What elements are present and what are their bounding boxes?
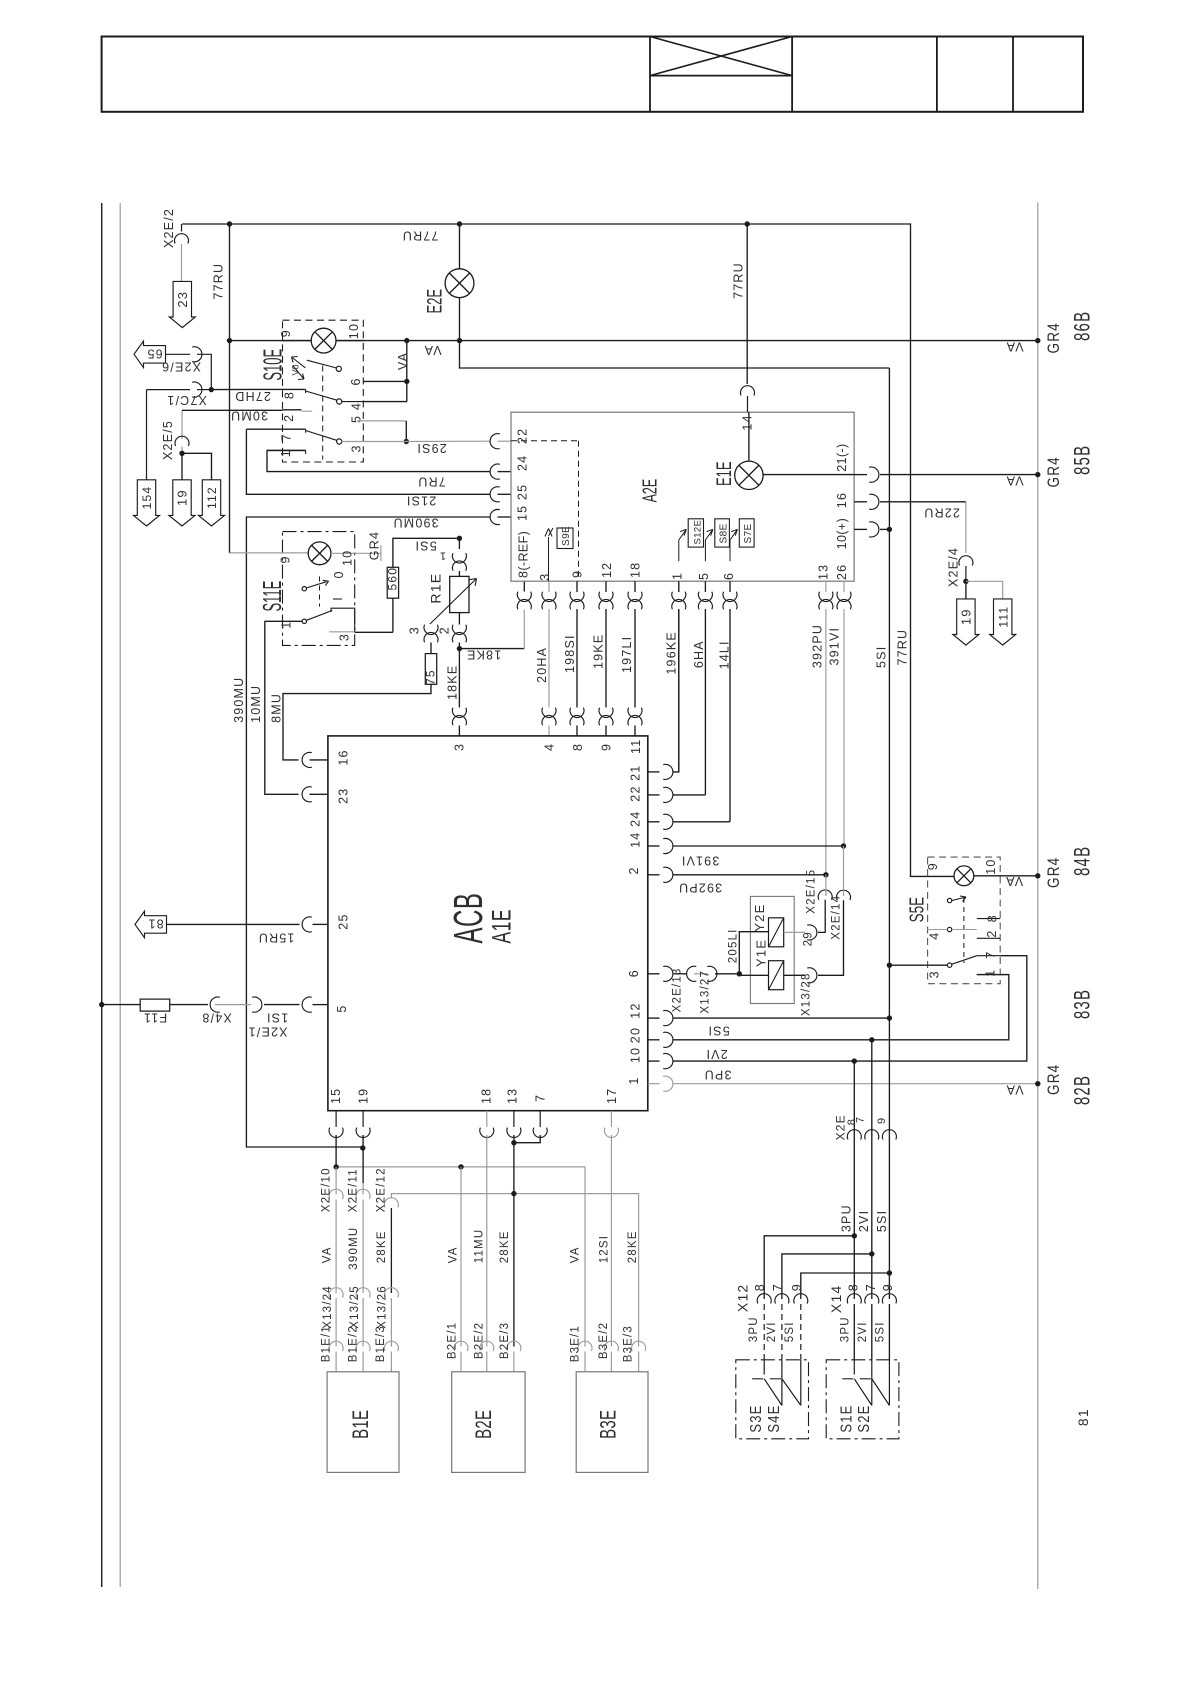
wire 28KE row: [391, 1194, 638, 1347]
wire 20HA: [548, 581, 550, 592]
svg-text:29: 29: [803, 931, 815, 946]
svg-text:X2E/11: X2E/11: [348, 1168, 360, 1212]
arrow 112: [182, 453, 212, 480]
svg-text:9: 9: [571, 570, 585, 578]
wire S11E pin9 feed: [230, 552, 309, 554]
svg-text:11MU: 11MU: [474, 1229, 486, 1264]
svg-text:X2E/6: X2E/6: [161, 360, 201, 374]
svg-text:83B: 83B: [1071, 989, 1096, 1019]
left supply rail: [101, 203, 103, 1587]
connector X13/27: [674, 973, 687, 975]
svg-text:S4E: S4E: [766, 1404, 783, 1432]
svg-text:7: 7: [771, 1283, 785, 1291]
svg-text:1: 1: [627, 1076, 641, 1084]
svg-text:7: 7: [534, 1094, 548, 1102]
svg-text:75: 75: [424, 669, 438, 685]
svg-text:F11: F11: [143, 1010, 167, 1024]
svg-text:22: 22: [629, 785, 643, 801]
wire E2E to 5SI corner: [460, 341, 890, 368]
svg-text:9: 9: [926, 862, 940, 870]
wire 196KE to pin21: [648, 771, 660, 773]
node 5SI-R1E: [457, 536, 462, 541]
wire 7RU: [267, 450, 490, 471]
wire 18KE to A1E pin3: [458, 649, 460, 708]
svg-text:19: 19: [175, 489, 190, 506]
svg-text:2VI: 2VI: [705, 1047, 727, 1061]
svg-text:8MU: 8MU: [270, 693, 284, 723]
rheostat R1E: [450, 576, 469, 612]
svg-text:S5E: S5E: [905, 897, 929, 922]
box B3E: [576, 1372, 648, 1473]
S11E contact 1-3: [265, 620, 302, 622]
node 2VI: [869, 1037, 874, 1042]
svg-text:82B: 82B: [1071, 1075, 1096, 1105]
S5E pin8 line: [977, 918, 1000, 920]
arrow 19 right: [965, 581, 967, 599]
node VA-GR4-85B: [1035, 472, 1040, 477]
node 5SI-pin12: [887, 1015, 892, 1020]
svg-text:205LI: 205LI: [728, 928, 740, 963]
svg-text:B1E/1: B1E/1: [321, 1325, 333, 1362]
wire 391VI to pin14: [648, 845, 660, 847]
svg-text:197LI: 197LI: [620, 636, 634, 673]
svg-text:390MU: 390MU: [392, 516, 438, 530]
svg-text:S1E: S1E: [839, 1404, 856, 1432]
wire 390MU: [246, 517, 427, 1147]
svg-text:S7E: S7E: [743, 523, 754, 543]
wire 196KE: [678, 581, 680, 592]
node VA-GR4-84B: [1035, 873, 1040, 878]
svg-text:8: 8: [847, 1283, 861, 1291]
svg-text:10(+): 10(+): [835, 518, 849, 550]
svg-text:9: 9: [279, 555, 293, 563]
svg-text:6: 6: [722, 572, 736, 580]
wire A2E pin14 feed: [746, 224, 748, 384]
svg-text:X12: X12: [735, 1284, 751, 1313]
lamp E1E: [748, 412, 750, 461]
wire B3E/3 col 28KE: [632, 1341, 646, 1351]
svg-text:X4/8: X4/8: [201, 1010, 232, 1024]
X12 branch 2VI: [869, 1251, 874, 1256]
sensor arrow S7E: [739, 519, 754, 547]
node X2E4: [963, 579, 968, 584]
switch S5E box: [928, 857, 1001, 984]
svg-text:B2E/2: B2E/2: [474, 1322, 486, 1359]
wire 6HA: [704, 581, 706, 592]
svg-text:5: 5: [697, 572, 711, 580]
svg-text:8: 8: [986, 914, 1000, 922]
svg-text:B2E/1: B2E/1: [447, 1322, 459, 1359]
S5E pin1 line: [977, 974, 1009, 976]
wire 29SI: [342, 441, 407, 443]
wire B3E/1 col VA: [584, 1167, 586, 1347]
svg-text:17: 17: [605, 1088, 619, 1104]
wire 5SI vertical lower: [888, 368, 890, 1299]
svg-text:S11E: S11E: [258, 581, 287, 612]
connector X2E 7 on 2VI: [865, 1130, 879, 1140]
switch S1E/S2E box: [826, 1360, 899, 1439]
node 3PU: [852, 1058, 857, 1063]
node 77RU-E1E: [745, 221, 750, 226]
svg-text:Y2E: Y2E: [752, 904, 767, 932]
svg-text:19: 19: [357, 1088, 371, 1104]
node 18KE: [457, 646, 462, 651]
svg-text:84B: 84B: [1071, 846, 1096, 876]
wire VA to pin6-pin4: [406, 341, 408, 402]
arrow 23: [169, 281, 195, 327]
svg-text:5 4: 5 4: [349, 402, 363, 423]
svg-text:X13/27: X13/27: [700, 970, 712, 1014]
svg-text:391VI: 391VI: [681, 854, 720, 868]
connector X2E/5: [175, 436, 189, 446]
left border line: [119, 203, 121, 1587]
svg-text:5SI: 5SI: [875, 1210, 889, 1232]
svg-text:X2E/2: X2E/2: [162, 208, 176, 248]
svg-text:28KE: 28KE: [499, 1230, 511, 1263]
svg-text:X2E/12: X2E/12: [376, 1167, 388, 1212]
node VA-B2: [458, 1164, 463, 1169]
wire pin1 row VA 82B: [648, 1083, 660, 1085]
svg-text:VA: VA: [396, 352, 410, 370]
S10E selector centerline: [322, 366, 324, 460]
svg-text:9: 9: [279, 329, 293, 337]
node VA-S10E: [404, 338, 409, 343]
svg-text:13: 13: [506, 1088, 520, 1104]
wire 205LI: [737, 971, 742, 976]
net stub GR4 at S11E: [380, 545, 382, 561]
node 10+ 5SI: [887, 527, 892, 532]
wire 2VI vertical: [871, 1040, 873, 1299]
wire 8MU: [283, 684, 431, 760]
svg-text:7: 7: [864, 1283, 878, 1291]
svg-text:6HA: 6HA: [692, 640, 706, 668]
svg-text:Y1E: Y1E: [754, 939, 769, 967]
svg-text:0: 0: [332, 570, 346, 578]
svg-text:111: 111: [996, 606, 1010, 628]
svg-text:560: 560: [386, 567, 400, 591]
svg-text:3: 3: [453, 743, 467, 751]
svg-text:15 25: 15 25: [516, 484, 530, 521]
arrow 65: [134, 341, 166, 368]
svg-text:18KE: 18KE: [466, 648, 501, 662]
arrow 154: [134, 480, 160, 526]
svg-text:3: 3: [928, 970, 942, 978]
svg-text:3PU: 3PU: [748, 1316, 760, 1342]
svg-text:VA: VA: [1005, 340, 1023, 354]
connector R1E pin1: [458, 538, 460, 549]
wire 77RU bus: [182, 224, 928, 876]
title block crossed box: [650, 75, 792, 77]
S5E contact 3: [889, 964, 947, 966]
wire 6HA to pin22: [648, 794, 660, 796]
fuse F11: [99, 1002, 104, 1007]
wire VA 85B row: [854, 474, 867, 476]
svg-text:29SI: 29SI: [416, 441, 447, 455]
svg-text:3PU: 3PU: [704, 1067, 732, 1081]
svg-text:5: 5: [335, 1004, 349, 1012]
S10E pin1 line: [267, 449, 306, 451]
S10E wiper arm: [307, 360, 336, 368]
svg-text:16: 16: [337, 749, 351, 765]
svg-text:5SI: 5SI: [875, 1321, 887, 1342]
S10E contact 7-3: [246, 428, 305, 430]
svg-text:21: 21: [629, 765, 643, 781]
svg-text:X2E/15: X2E/15: [806, 869, 818, 914]
wire VA bus: [230, 340, 1038, 342]
wire 3PU vertical: [853, 1061, 855, 1299]
wire 392PU to pin2: [648, 874, 660, 876]
svg-text:24: 24: [516, 455, 530, 471]
wire B2E/1 col VA: [460, 1167, 462, 1347]
svg-text:22: 22: [516, 428, 530, 444]
svg-text:19: 19: [959, 608, 974, 625]
svg-text:18KE: 18KE: [445, 665, 459, 700]
svg-text:9: 9: [600, 743, 614, 751]
wire X7C/1 row: [147, 389, 191, 391]
svg-text:5SI: 5SI: [875, 646, 889, 668]
switch S10E box: [283, 320, 364, 462]
svg-text:S9E: S9E: [561, 526, 572, 546]
svg-text:30MU: 30MU: [230, 409, 268, 423]
svg-text:VA: VA: [1005, 874, 1023, 888]
svg-text:65: 65: [146, 347, 162, 361]
wire pin12 row 5SI: [648, 1017, 660, 1019]
svg-text:5SI: 5SI: [784, 1321, 796, 1342]
svg-text:B1E/3: B1E/3: [375, 1325, 387, 1362]
svg-text:112: 112: [205, 486, 219, 509]
wire 14LI to pin24: [648, 821, 660, 823]
node VA-GR4-82B: [1035, 1081, 1040, 1086]
svg-text:392PU: 392PU: [678, 881, 722, 895]
svg-text:154: 154: [140, 486, 154, 510]
S10E pin5 line: [357, 420, 406, 422]
svg-text:27HD: 27HD: [234, 389, 271, 403]
S10E pin6 line: [363, 380, 407, 382]
svg-text:1: 1: [439, 550, 446, 562]
wire pin19 col 390MU: [356, 1128, 370, 1138]
svg-text:196KE: 196KE: [665, 631, 679, 675]
svg-text:28KE: 28KE: [376, 1230, 388, 1263]
wire B1E/3 col 28KE: [384, 1198, 398, 1208]
lamp E2E: [459, 224, 461, 269]
svg-text:X2E/14: X2E/14: [831, 895, 843, 940]
S5E pin2 line: [977, 937, 1000, 939]
svg-text:3: 3: [408, 626, 422, 634]
S10E pin2 stub: [283, 409, 302, 411]
node VA-left: [227, 338, 232, 343]
svg-text:28KE: 28KE: [627, 1230, 639, 1263]
svg-text:10: 10: [629, 1047, 643, 1063]
svg-text:1SI: 1SI: [266, 1010, 288, 1024]
svg-text:3PU: 3PU: [840, 1316, 852, 1342]
svg-text:85B: 85B: [1071, 445, 1096, 475]
node S10E pin6: [404, 379, 409, 384]
svg-text:B1E/2: B1E/2: [348, 1325, 360, 1362]
svg-text:2VI: 2VI: [857, 1210, 871, 1232]
svg-text:390MU: 390MU: [232, 677, 246, 723]
wire Y1E to X13/28 X2E/14: [784, 974, 805, 976]
node 28KE: [511, 1191, 516, 1196]
svg-text:4: 4: [543, 743, 557, 751]
svg-text:B3E/3: B3E/3: [623, 1325, 635, 1362]
svg-text:86B: 86B: [1071, 311, 1096, 341]
wire 30MU row: [181, 411, 183, 440]
svg-text:3: 3: [349, 444, 363, 452]
svg-text:B3E/1: B3E/1: [570, 1325, 582, 1362]
wire 18KE branch to A2E 8REF: [459, 648, 524, 650]
node VA-GR4-86B: [1035, 338, 1040, 343]
X12 branch 3PU: [852, 1233, 857, 1238]
svg-text:22RU: 22RU: [923, 506, 960, 520]
svg-text:77RU: 77RU: [732, 262, 746, 299]
svg-text:3: 3: [538, 573, 552, 581]
svg-text:3PU: 3PU: [840, 1204, 854, 1232]
svg-text:X2E/4: X2E/4: [947, 547, 961, 587]
svg-text:B2E/3: B2E/3: [499, 1322, 511, 1359]
svg-text:X13/28: X13/28: [801, 972, 813, 1016]
lamp S10E pin9-10: [283, 340, 312, 342]
svg-text:12: 12: [629, 1002, 643, 1018]
svg-text:2VI: 2VI: [766, 1321, 778, 1342]
coil Y1E: [739, 974, 768, 976]
wire 1SI: [170, 1004, 208, 1006]
svg-text:18: 18: [480, 1088, 494, 1104]
wire pin7 jog: [533, 1128, 547, 1138]
svg-text:12: 12: [600, 562, 614, 578]
svg-text:8: 8: [753, 1283, 767, 1291]
wire pin10 row 3PU: [648, 1060, 660, 1062]
svg-text:14LI: 14LI: [718, 640, 732, 669]
S5E selector: [947, 898, 951, 902]
lamp S5E: [928, 875, 954, 877]
svg-text:GR4: GR4: [1045, 456, 1064, 487]
svg-text:X2E/5: X2E/5: [161, 420, 175, 460]
svg-text:X14: X14: [828, 1285, 844, 1314]
wire 154 drop: [146, 390, 148, 480]
svg-text:8: 8: [283, 391, 297, 399]
connector X2E/2: [181, 224, 183, 232]
svg-text:10: 10: [341, 550, 355, 566]
S10E contact 8-4: [283, 388, 306, 390]
svg-text:GR4: GR4: [1045, 1064, 1064, 1095]
X12 branch 5SI: [887, 1270, 892, 1275]
svg-text:VA: VA: [1005, 474, 1023, 488]
svg-text:5SI: 5SI: [707, 1024, 729, 1038]
svg-text:81: 81: [147, 917, 163, 931]
svg-text:23: 23: [175, 291, 190, 308]
node X2E5: [179, 451, 184, 456]
svg-text:6: 6: [627, 969, 641, 977]
svg-text:3: 3: [338, 633, 352, 641]
svg-text:7: 7: [984, 951, 998, 959]
sensor arrow S12E: [688, 519, 703, 547]
title block frame: [102, 37, 1083, 112]
svg-text:1: 1: [671, 572, 685, 580]
wire 197LI: [634, 581, 636, 592]
wire 198SI: [576, 581, 578, 592]
svg-text:15RU: 15RU: [258, 931, 295, 945]
connector R1E pin2: [458, 613, 460, 625]
svg-text:B2E: B2E: [471, 1410, 495, 1439]
svg-text:11: 11: [629, 739, 643, 754]
svg-text:24: 24: [629, 811, 643, 827]
svg-text:6: 6: [349, 377, 363, 385]
svg-text:198SI: 198SI: [563, 634, 577, 673]
svg-text:16: 16: [835, 492, 849, 508]
svg-text:14: 14: [741, 414, 755, 430]
svg-text:9: 9: [881, 1283, 895, 1291]
coil Y2E: [769, 918, 784, 947]
svg-text:20HA: 20HA: [535, 647, 549, 683]
arrow 111: [966, 581, 1003, 599]
svg-text:X2E/1: X2E/1: [247, 1025, 287, 1039]
svg-text:8: 8: [571, 743, 585, 751]
node 391VI: [841, 843, 846, 848]
svg-text:391VI: 391VI: [828, 627, 842, 666]
svg-text:21SI: 21SI: [406, 494, 437, 508]
svg-text:B3E: B3E: [596, 1410, 620, 1439]
svg-text:X7C/1: X7C/1: [166, 393, 207, 407]
wire pin20 row 2VI: [648, 1039, 660, 1041]
wire pin6 row X2E/13: [648, 973, 660, 975]
wire X2E2 riser: [229, 224, 231, 553]
svg-text:81: 81: [1075, 1408, 1091, 1426]
wire 19KE: [605, 581, 607, 592]
node 5SI-S5E3: [887, 963, 892, 968]
node X7C1: [209, 387, 214, 392]
connector X2E/6: [166, 353, 191, 355]
connector R1E pin3: [424, 625, 438, 635]
svg-text:7: 7: [855, 1116, 867, 1123]
svg-text:2: 2: [985, 929, 999, 937]
node 392PU: [823, 872, 828, 877]
S10E selector arrows: [292, 357, 306, 369]
wire pin17 col 12SI: [604, 1128, 618, 1138]
svg-text:13: 13: [817, 564, 831, 580]
svg-text:GR4: GR4: [1045, 857, 1064, 888]
wire 391VI upper: [843, 581, 845, 592]
svg-text:390MU: 390MU: [348, 1227, 360, 1270]
svg-text:21(-): 21(-): [835, 443, 849, 471]
node VA-E2E: [457, 338, 462, 343]
svg-text:7RU: 7RU: [417, 475, 446, 489]
svg-text:9: 9: [790, 1283, 804, 1291]
svg-text:S2E: S2E: [856, 1404, 873, 1432]
svg-text:392PU: 392PU: [811, 624, 825, 668]
svg-text:B1E: B1E: [348, 1410, 372, 1439]
wire 392PU upper: [825, 581, 827, 592]
svg-text:25: 25: [337, 913, 351, 929]
svg-text:77RU: 77RU: [896, 629, 910, 666]
wire pin13 col 28KE: [507, 1128, 521, 1138]
svg-text:R1E: R1E: [428, 573, 444, 604]
svg-text:10MU: 10MU: [249, 685, 263, 723]
svg-text:S12E: S12E: [693, 520, 704, 545]
svg-text:S8E: S8E: [719, 523, 730, 543]
svg-text:X13/24: X13/24: [322, 1285, 334, 1329]
svg-text:GR4: GR4: [368, 531, 382, 560]
svg-text:X13/25: X13/25: [349, 1285, 361, 1329]
svg-text:X13/26: X13/26: [377, 1285, 389, 1329]
svg-text:2: 2: [438, 626, 452, 634]
wire pin18 col 11MU: [480, 1128, 494, 1138]
sensor S9E: [557, 528, 573, 549]
resistor 75: [430, 643, 432, 654]
svg-text:E1E: E1E: [712, 461, 736, 486]
svg-text:VA: VA: [322, 1246, 334, 1263]
svg-text:S3E: S3E: [748, 1404, 765, 1432]
node 77RU-E2E: [457, 221, 462, 226]
